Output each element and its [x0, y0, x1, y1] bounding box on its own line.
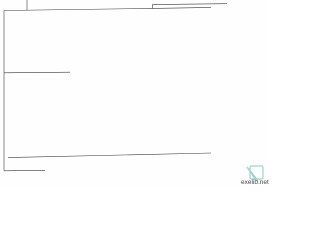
wire rail A (+supply): [4, 7, 211, 10]
wire regulator rail: [4, 71, 70, 74]
svg-text:exelib.net: exelib.net: [241, 179, 269, 186]
wire bottom-left rail: [4, 169, 45, 172]
wire main lower rail: [8, 153, 211, 158]
wire top stub: [26, 0, 28, 10]
wire left frame rail: [3, 11, 5, 171]
wire rail B (top right): [153, 4, 228, 9]
watermark logo: [247, 166, 263, 181]
